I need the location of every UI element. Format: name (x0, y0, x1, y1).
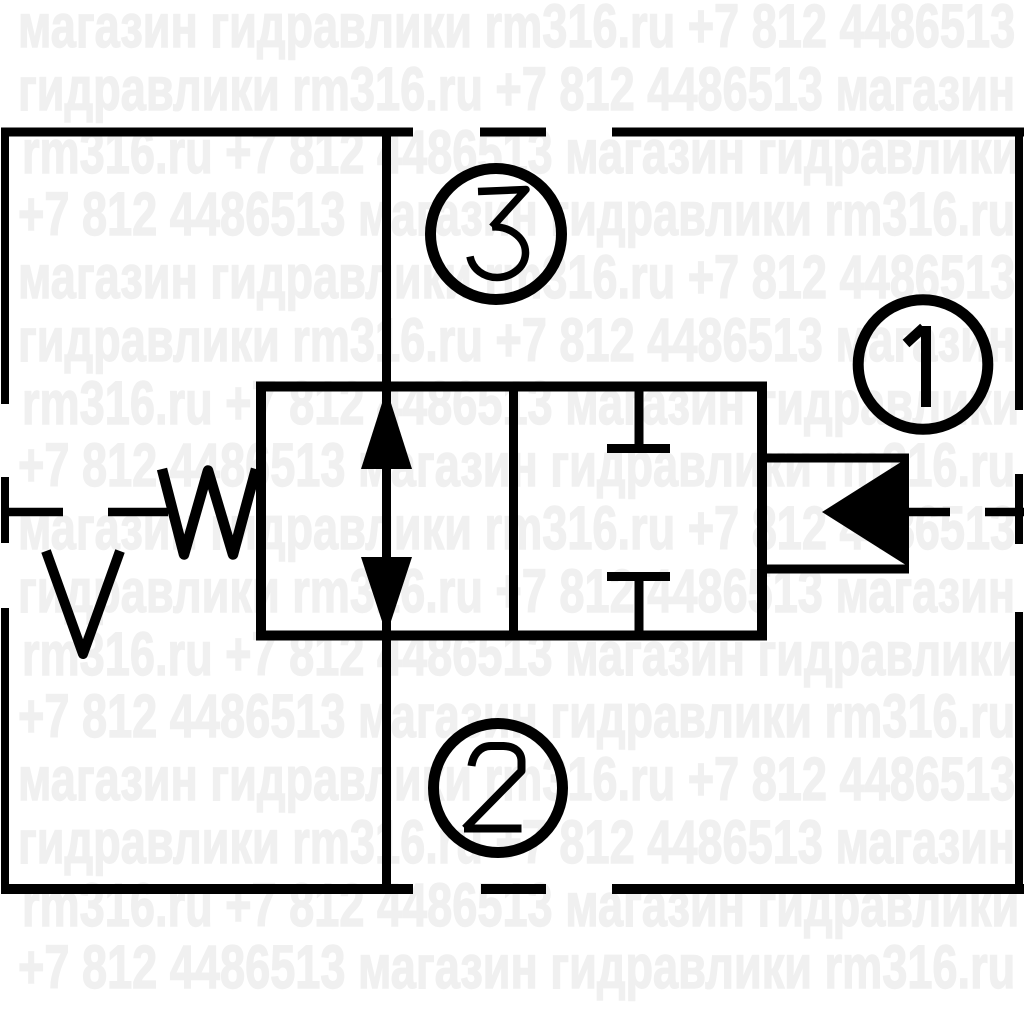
pilot channel bottom line (762, 565, 909, 574)
svg-text:гидравлики rm316.ru +7 812 448: гидравлики rm316.ru +7 812 4486513 магаз… (18, 55, 1015, 123)
svg-text:гидравлики rm316.ru +7 812 448: гидравлики rm316.ru +7 812 4486513 магаз… (18, 808, 1015, 876)
cartridge envelope left border (dashed) (1, 128, 9, 894)
flow arrow down head (361, 557, 412, 635)
blocked port T bottom: bar (607, 572, 670, 581)
digit 2 label (464, 746, 522, 829)
svg-text:+7 812 4486513 магазин гидравл: +7 812 4486513 магазин гидравлики rm316.… (18, 933, 1015, 1001)
pilot channel top line (762, 454, 909, 463)
wire: vertical flow line port3 to port2 (382, 128, 391, 884)
pilot solenoid triangle (822, 457, 909, 567)
svg-text:магазин гидравлики rm316.ru +7: магазин гидравлики rm316.ru +7 812 44865… (18, 0, 1015, 61)
valve body divider (509, 382, 518, 640)
svg-text:+7 812 4486513 магазин гидравл: +7 812 4486513 магазин гидравлики rm316.… (18, 682, 1015, 750)
valve body outline (261, 387, 762, 636)
blocked port T bottom: stem (635, 577, 644, 641)
port circle 1 (858, 300, 988, 430)
cartridge envelope top border (dashed) (1, 128, 1024, 137)
flow arrow up head (361, 389, 412, 469)
cartridge envelope right border (dashed) (1015, 131, 1023, 890)
svg-text:rm316.ru +7 812 4486513 магази: rm316.ru +7 812 4486513 магазин гидравли… (22, 871, 1019, 939)
spring (162, 469, 256, 555)
cartridge envelope bottom border (dashed) (1, 884, 1024, 894)
blocked port T top: stem (635, 382, 644, 453)
port circle 2 (434, 724, 563, 853)
wire: port line left (to spring side) (1, 508, 168, 517)
wire: port 1 line right (909, 508, 1024, 517)
port circle 3 (431, 169, 562, 300)
vent V symbol (46, 551, 120, 654)
digit 1 label (906, 326, 926, 407)
blocked port T top: bar (607, 444, 670, 453)
digit 3 label (470, 190, 526, 278)
